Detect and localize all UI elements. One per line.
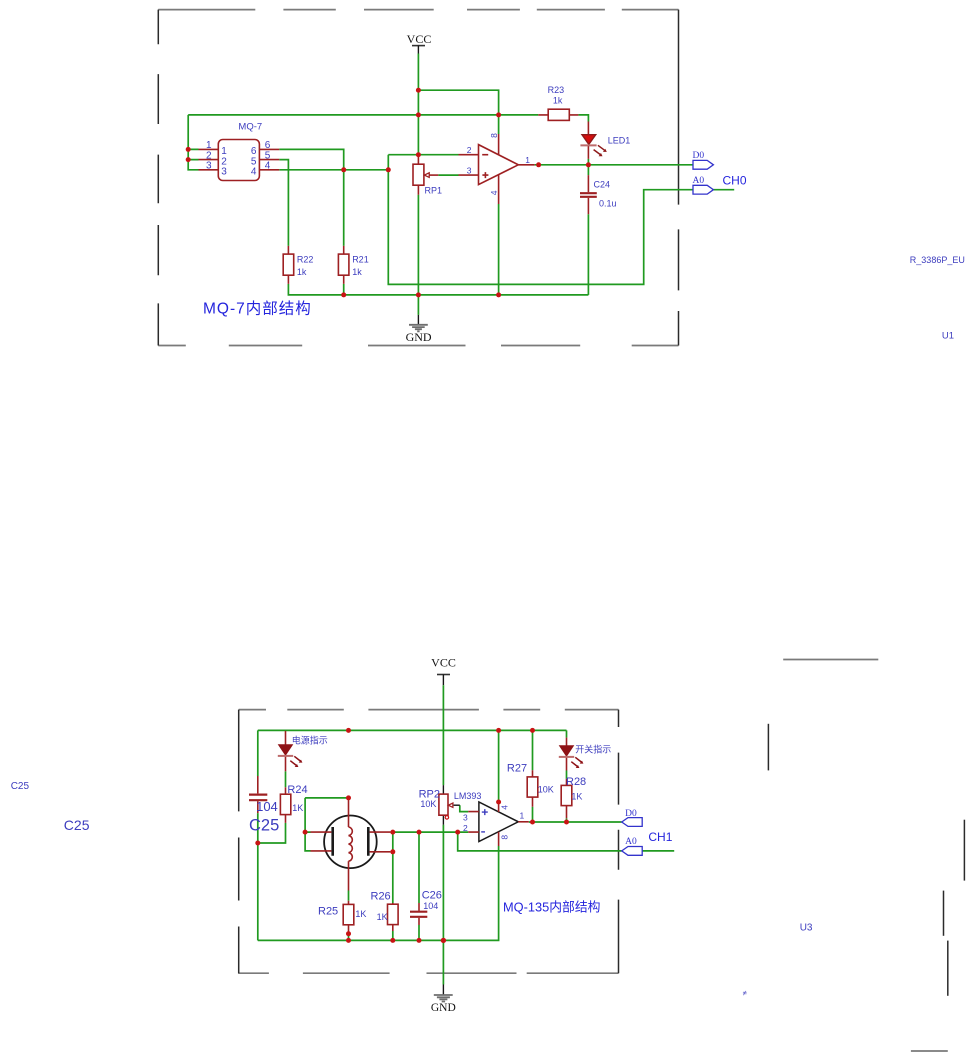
- frame left edge (dashed): [157, 10, 159, 346]
- svg-text:GND: GND: [431, 1002, 456, 1014]
- svg-text:104: 104: [256, 799, 278, 814]
- svg-text:R27: R27: [507, 763, 527, 775]
- wire GND rail (top circuit): [288, 284, 588, 295]
- stray frame fragment horizontal upper right: [783, 659, 878, 661]
- svg-text:0.1u: 0.1u: [599, 199, 617, 209]
- junction sensor right electrode bottom: [390, 849, 395, 854]
- junction sensor column at VCC rail: [346, 728, 351, 733]
- svg-text:R21: R21: [352, 254, 369, 264]
- stray frame fragment vertical right 3: [943, 891, 945, 936]
- junction pin8 column y115: [496, 112, 501, 117]
- svg-text:R22: R22: [297, 254, 314, 264]
- svg-text:VCC: VCC: [431, 656, 456, 670]
- wire GND stub (top): [417, 295, 419, 315]
- junction R27 at VCC rail: [530, 728, 535, 733]
- junction RP1 top: [416, 152, 421, 157]
- junction op-amp output: [536, 162, 541, 167]
- capacitor C25: [249, 776, 279, 835]
- wire output to D0 flag (bottom): [529, 821, 622, 823]
- wire LED1 cathode to output net: [587, 159, 589, 175]
- junction VCC rail y115: [416, 112, 421, 117]
- wire C25 top: [257, 730, 259, 776]
- power VCC (top): [407, 32, 432, 54]
- wire pin4 row: [279, 169, 388, 171]
- wire op-amp output to D0 flag: [535, 164, 693, 166]
- svg-text:A0: A0: [625, 837, 637, 847]
- svg-text:4: 4: [251, 167, 257, 178]
- svg-text:R26: R26: [371, 891, 391, 903]
- svg-text:C26: C26: [422, 890, 442, 902]
- frame bottom edge (dashed): [238, 972, 618, 974]
- junction C26 at GND rail: [417, 938, 422, 943]
- frame left edge (dashed): [238, 710, 240, 974]
- sensor MQ-7 box U?: [218, 121, 262, 180]
- junction GND drop at rail: [441, 938, 446, 943]
- junction VCC/upper loop: [416, 88, 421, 93]
- pin numbers MQ-7 outside right: [265, 140, 271, 171]
- junction pin4 row end: [386, 167, 391, 172]
- svg-text:3: 3: [463, 812, 468, 822]
- ground GND (bottom): [431, 985, 456, 1014]
- svg-text:8: 8: [500, 835, 510, 840]
- wire VCC top rail (bottom circuit): [258, 729, 567, 731]
- wire R21 bottom: [343, 284, 345, 295]
- stray frame fragment horizontal bottom right: [911, 1050, 948, 1052]
- junction MQ-7 pin1: [186, 147, 191, 152]
- junction R28 at output: [564, 820, 569, 825]
- junction LM393 pin4: [496, 800, 501, 805]
- junction R25 at GND rail: [346, 938, 351, 943]
- wire R24 bottom link: [258, 823, 286, 843]
- junction pin4 at GND rail: [496, 292, 501, 297]
- svg-text:1K: 1K: [377, 912, 388, 922]
- pin leads MQ-7 right: [259, 149, 279, 169]
- junction R26 at GND rail: [390, 938, 395, 943]
- junction pin6/R21: [341, 167, 346, 172]
- svg-text:R_3386P_EU: R_3386P_EU: [910, 255, 965, 265]
- sensor MQ-135 (circle with electrodes and heater coil): [311, 798, 391, 891]
- resistor R21: [338, 246, 368, 284]
- svg-text:LM393: LM393: [454, 791, 482, 801]
- junction C26 top: [417, 830, 422, 835]
- svg-text:R28: R28: [566, 776, 586, 788]
- wire op-amp pin4 (bottom): [498, 730, 500, 802]
- svg-text:1k: 1k: [352, 267, 362, 277]
- wire LED to R24: [285, 771, 287, 787]
- wire VCC vertical: [417, 54, 419, 155]
- stray frame fragment vertical right 4: [947, 941, 949, 996]
- junction sensor top node: [346, 795, 351, 800]
- wire op-amp pin4 down: [498, 204, 500, 295]
- pin labels LM393: [463, 805, 525, 840]
- svg-text:VCC: VCC: [407, 32, 432, 46]
- wire R27 column: [532, 730, 534, 822]
- junction C25/R24 bottom: [255, 841, 260, 846]
- svg-text:R23: R23: [548, 85, 565, 95]
- svg-text:C25: C25: [64, 817, 90, 833]
- svg-text:4: 4: [489, 190, 499, 195]
- svg-text:U1: U1: [942, 330, 954, 341]
- svg-text:MQ-7: MQ-7: [238, 121, 262, 132]
- LED power indicator (dianyuan): [278, 731, 328, 771]
- svg-text:R25: R25: [318, 905, 338, 917]
- resistor R22: [283, 246, 313, 284]
- wire RP1 wiper to pin3: [438, 174, 458, 176]
- wire A0 net (pin2 column, bottom run, up to flag): [388, 155, 734, 285]
- junction LED1/C24 node: [586, 162, 591, 167]
- stray frame fragment vertical right 2: [963, 820, 965, 881]
- wire VCC horizontal rail y115: [188, 114, 538, 116]
- svg-text:3: 3: [467, 166, 472, 176]
- frame right edge (dashed): [618, 710, 620, 974]
- wire C26 column: [418, 832, 420, 940]
- svg-text:C24: C24: [594, 179, 611, 189]
- wire MQ-7 left pins bus: [188, 115, 198, 170]
- wire A0 net (bottom): [458, 832, 675, 851]
- flag A0 (top): [693, 176, 714, 194]
- wire R21 top: [343, 170, 345, 246]
- junction R27 at output: [530, 820, 535, 825]
- svg-text:RP1: RP1: [425, 186, 443, 196]
- svg-text:R24: R24: [287, 784, 307, 796]
- svg-text:1k: 1k: [297, 267, 307, 277]
- potentiometer RP1: [413, 155, 442, 196]
- LED switch indicator (kaiguan): [559, 738, 611, 771]
- svg-text:1k: 1k: [553, 96, 563, 106]
- svg-text:D0: D0: [625, 809, 637, 819]
- flag A0 (bottom, points left): [622, 837, 643, 855]
- svg-text:4: 4: [265, 161, 271, 172]
- svg-text:≠: ≠: [743, 989, 747, 998]
- junction A0 branch: [455, 830, 460, 835]
- resistor R23: [538, 85, 578, 120]
- wire RP2 wiper to pin3: [460, 805, 469, 811]
- wire sensor top-left: [305, 797, 348, 799]
- svg-text:1: 1: [525, 155, 530, 165]
- wire R25 links: [348, 891, 350, 941]
- wire sensor right to pin2 rail: [390, 831, 468, 833]
- svg-text:MQ-135内部结构: MQ-135内部结构: [503, 899, 600, 914]
- svg-text:8: 8: [489, 133, 499, 138]
- wire C24 bottom to GND rail: [587, 214, 589, 295]
- svg-text:电源指示: 电源指示: [292, 734, 328, 745]
- svg-text:1K: 1K: [292, 803, 303, 813]
- svg-text:4: 4: [500, 805, 510, 810]
- svg-text:1K: 1K: [355, 909, 366, 919]
- junction MQ-7 pin2: [186, 157, 191, 162]
- flag D0 (top): [693, 151, 714, 169]
- wire VCC upper loop to pin8: [418, 90, 498, 134]
- resistor R25: [318, 901, 366, 934]
- svg-text:D0: D0: [693, 151, 705, 161]
- ground GND (top): [406, 315, 432, 344]
- op-amp U (top comparator): [459, 134, 535, 204]
- wire GND rail (bottom circuit): [258, 846, 499, 940]
- junction sensor right electrode top: [390, 830, 395, 835]
- pin leads MQ-7 left: [199, 149, 219, 169]
- wire VCC vertical (bottom): [442, 685, 444, 785]
- flag D0 (bottom, points left): [622, 809, 643, 826]
- svg-text:1K: 1K: [571, 792, 582, 802]
- capacitor C24: [580, 175, 617, 214]
- svg-text:10K: 10K: [538, 784, 554, 794]
- junction R25 lead end: [346, 931, 351, 936]
- power VCC (bottom): [431, 656, 456, 686]
- resistor R28: [561, 776, 586, 818]
- wire LED2 branch: [566, 730, 568, 822]
- svg-text:CH1: CH1: [648, 830, 672, 844]
- pin numbers MQ-7 inside left: [221, 146, 227, 177]
- wire RP2 bottom to GND symbol: [442, 825, 444, 985]
- svg-text:MQ-7内部结构: MQ-7内部结构: [203, 300, 312, 318]
- svg-text:104: 104: [423, 901, 438, 911]
- op-amp LM393 (bottom comparator): [454, 791, 529, 846]
- svg-text:GND: GND: [406, 330, 432, 344]
- wire sensor left column: [305, 798, 310, 851]
- resistor R26: [371, 891, 399, 932]
- svg-text:开关指示: 开关指示: [575, 744, 611, 755]
- wire pin6 to R21 column: [279, 149, 343, 169]
- potentiometer RP2: [419, 785, 460, 825]
- junction RP1 at GND rail: [416, 292, 421, 297]
- svg-text:LED1: LED1: [608, 136, 631, 146]
- svg-text:C25: C25: [11, 781, 30, 792]
- LED LED1: [580, 122, 630, 159]
- wire RP1 bottom to GND rail: [417, 195, 419, 295]
- frame bottom edge (dashed): [158, 345, 678, 347]
- pin numbers MQ-7 inside right: [251, 146, 257, 177]
- frame top edge (dashed): [239, 709, 619, 711]
- frame top edge (dashed): [158, 9, 678, 11]
- svg-text:3: 3: [221, 167, 227, 178]
- svg-text:2: 2: [467, 145, 472, 155]
- wire pin5 to R22: [279, 160, 288, 246]
- junction R21 at GND rail: [341, 292, 346, 297]
- wire C25 bottom column: [257, 813, 259, 940]
- wire to op-amp pin2: [388, 154, 458, 156]
- svg-text:A0: A0: [693, 176, 705, 186]
- svg-text:U3: U3: [800, 923, 813, 934]
- frame right edge (dashed): [678, 10, 680, 346]
- svg-text:10K: 10K: [420, 799, 436, 809]
- stray frame fragment vertical right 1: [767, 724, 769, 771]
- svg-text:2: 2: [463, 823, 468, 833]
- pin labels op-amp top: [467, 133, 530, 195]
- wire sensor right column to R26: [390, 832, 393, 940]
- resistor R27: [507, 763, 554, 807]
- svg-text:3: 3: [206, 161, 212, 172]
- capacitor C26: [410, 890, 442, 925]
- junction pin4 at VCC rail: [496, 728, 501, 733]
- wire R23 to LED1: [578, 115, 588, 122]
- svg-text:C25: C25: [249, 817, 279, 835]
- resistor R24: [280, 784, 307, 823]
- svg-text:1: 1: [520, 811, 525, 821]
- svg-text:CH0: CH0: [723, 173, 747, 187]
- pin numbers MQ-7 outside left: [206, 140, 212, 171]
- junction sensor left electrodes: [303, 830, 308, 835]
